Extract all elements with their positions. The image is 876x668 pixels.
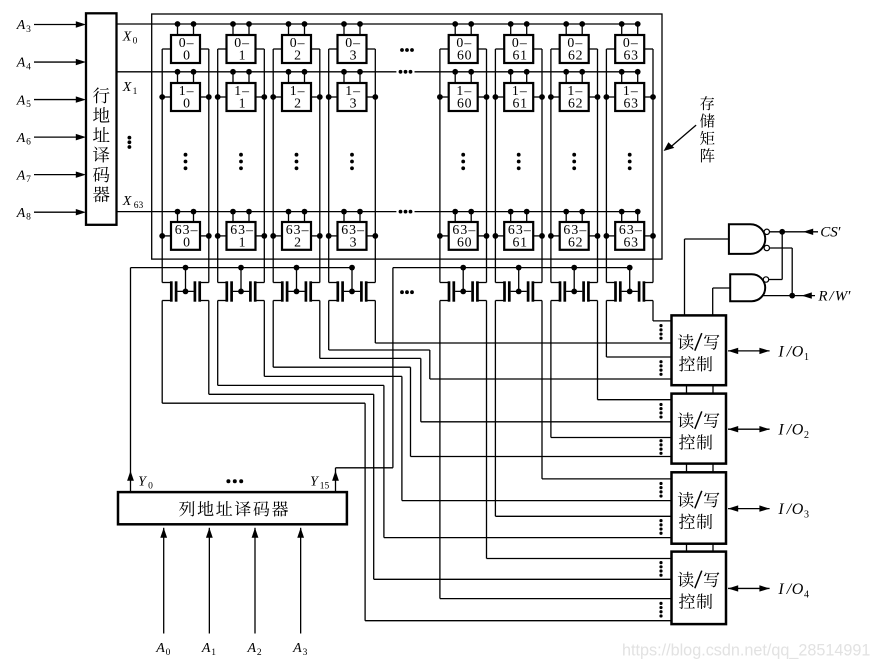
svg-text:A: A (16, 168, 26, 183)
svg-text:I: I (777, 422, 784, 439)
svg-text:63: 63 (623, 234, 638, 249)
svg-text:O: O (792, 422, 804, 439)
svg-text:63: 63 (623, 48, 638, 63)
svg-text:A: A (16, 131, 26, 146)
svg-text:61: 61 (512, 48, 527, 63)
svg-text:I: I (777, 343, 784, 360)
svg-text:3: 3 (350, 234, 358, 249)
svg-text:0: 0 (166, 648, 171, 658)
svg-text:3: 3 (303, 648, 308, 658)
svg-text:A: A (16, 56, 26, 71)
svg-text:2: 2 (294, 48, 302, 63)
svg-text:4: 4 (26, 63, 31, 73)
svg-text:X: X (122, 30, 132, 45)
svg-text:X: X (122, 80, 132, 95)
svg-text:0: 0 (183, 96, 191, 111)
svg-text:3: 3 (804, 510, 809, 521)
svg-text:CS: CS (820, 225, 838, 241)
svg-text:A: A (16, 93, 26, 108)
svg-text:O: O (792, 343, 804, 360)
svg-text:2: 2 (257, 648, 262, 658)
svg-text:A: A (16, 18, 26, 33)
svg-text:1: 1 (133, 87, 138, 97)
svg-text:3: 3 (350, 48, 358, 63)
svg-text:A: A (16, 206, 26, 221)
svg-text:60: 60 (457, 48, 472, 63)
svg-text:X: X (122, 194, 132, 209)
svg-text:5: 5 (26, 100, 31, 110)
svg-text:3: 3 (350, 96, 358, 111)
svg-text:0: 0 (148, 481, 153, 491)
svg-text:4: 4 (804, 589, 809, 600)
svg-text:63: 63 (134, 201, 144, 211)
svg-text:A: A (155, 641, 165, 656)
svg-text:61: 61 (512, 96, 527, 111)
svg-text:1: 1 (239, 48, 247, 63)
svg-text:2: 2 (294, 96, 302, 111)
svg-text:8: 8 (26, 213, 31, 223)
svg-text:0: 0 (183, 234, 191, 249)
svg-text:O: O (792, 501, 804, 518)
svg-text:15: 15 (320, 481, 330, 491)
svg-text:1: 1 (239, 234, 247, 249)
svg-text:0: 0 (183, 48, 191, 63)
svg-text:0: 0 (133, 37, 138, 47)
svg-text:1: 1 (239, 96, 247, 111)
svg-text:60: 60 (457, 96, 472, 111)
svg-text:A: A (292, 641, 302, 656)
svg-text:1: 1 (804, 352, 809, 363)
svg-text:63: 63 (623, 96, 638, 111)
svg-text:1: 1 (211, 648, 216, 658)
svg-text:I: I (777, 581, 784, 598)
svg-text:I: I (777, 501, 784, 518)
svg-text:60: 60 (457, 234, 472, 249)
svg-text:7: 7 (26, 175, 31, 185)
svg-text:O: O (792, 581, 804, 598)
svg-text:A: A (201, 641, 211, 656)
svg-text:61: 61 (512, 234, 527, 249)
svg-text:2: 2 (294, 234, 302, 249)
svg-text:2: 2 (804, 430, 809, 441)
svg-text:3: 3 (26, 25, 31, 35)
svg-text:62: 62 (568, 96, 583, 111)
svg-text:62: 62 (568, 234, 583, 249)
svg-text:6: 6 (26, 138, 31, 148)
svg-text:A: A (247, 641, 257, 656)
svg-text:62: 62 (568, 48, 583, 63)
svg-text:https://blog.csdn.net/qq_28514: https://blog.csdn.net/qq_28514991 (622, 642, 870, 660)
svg-text:R: R (817, 288, 827, 304)
